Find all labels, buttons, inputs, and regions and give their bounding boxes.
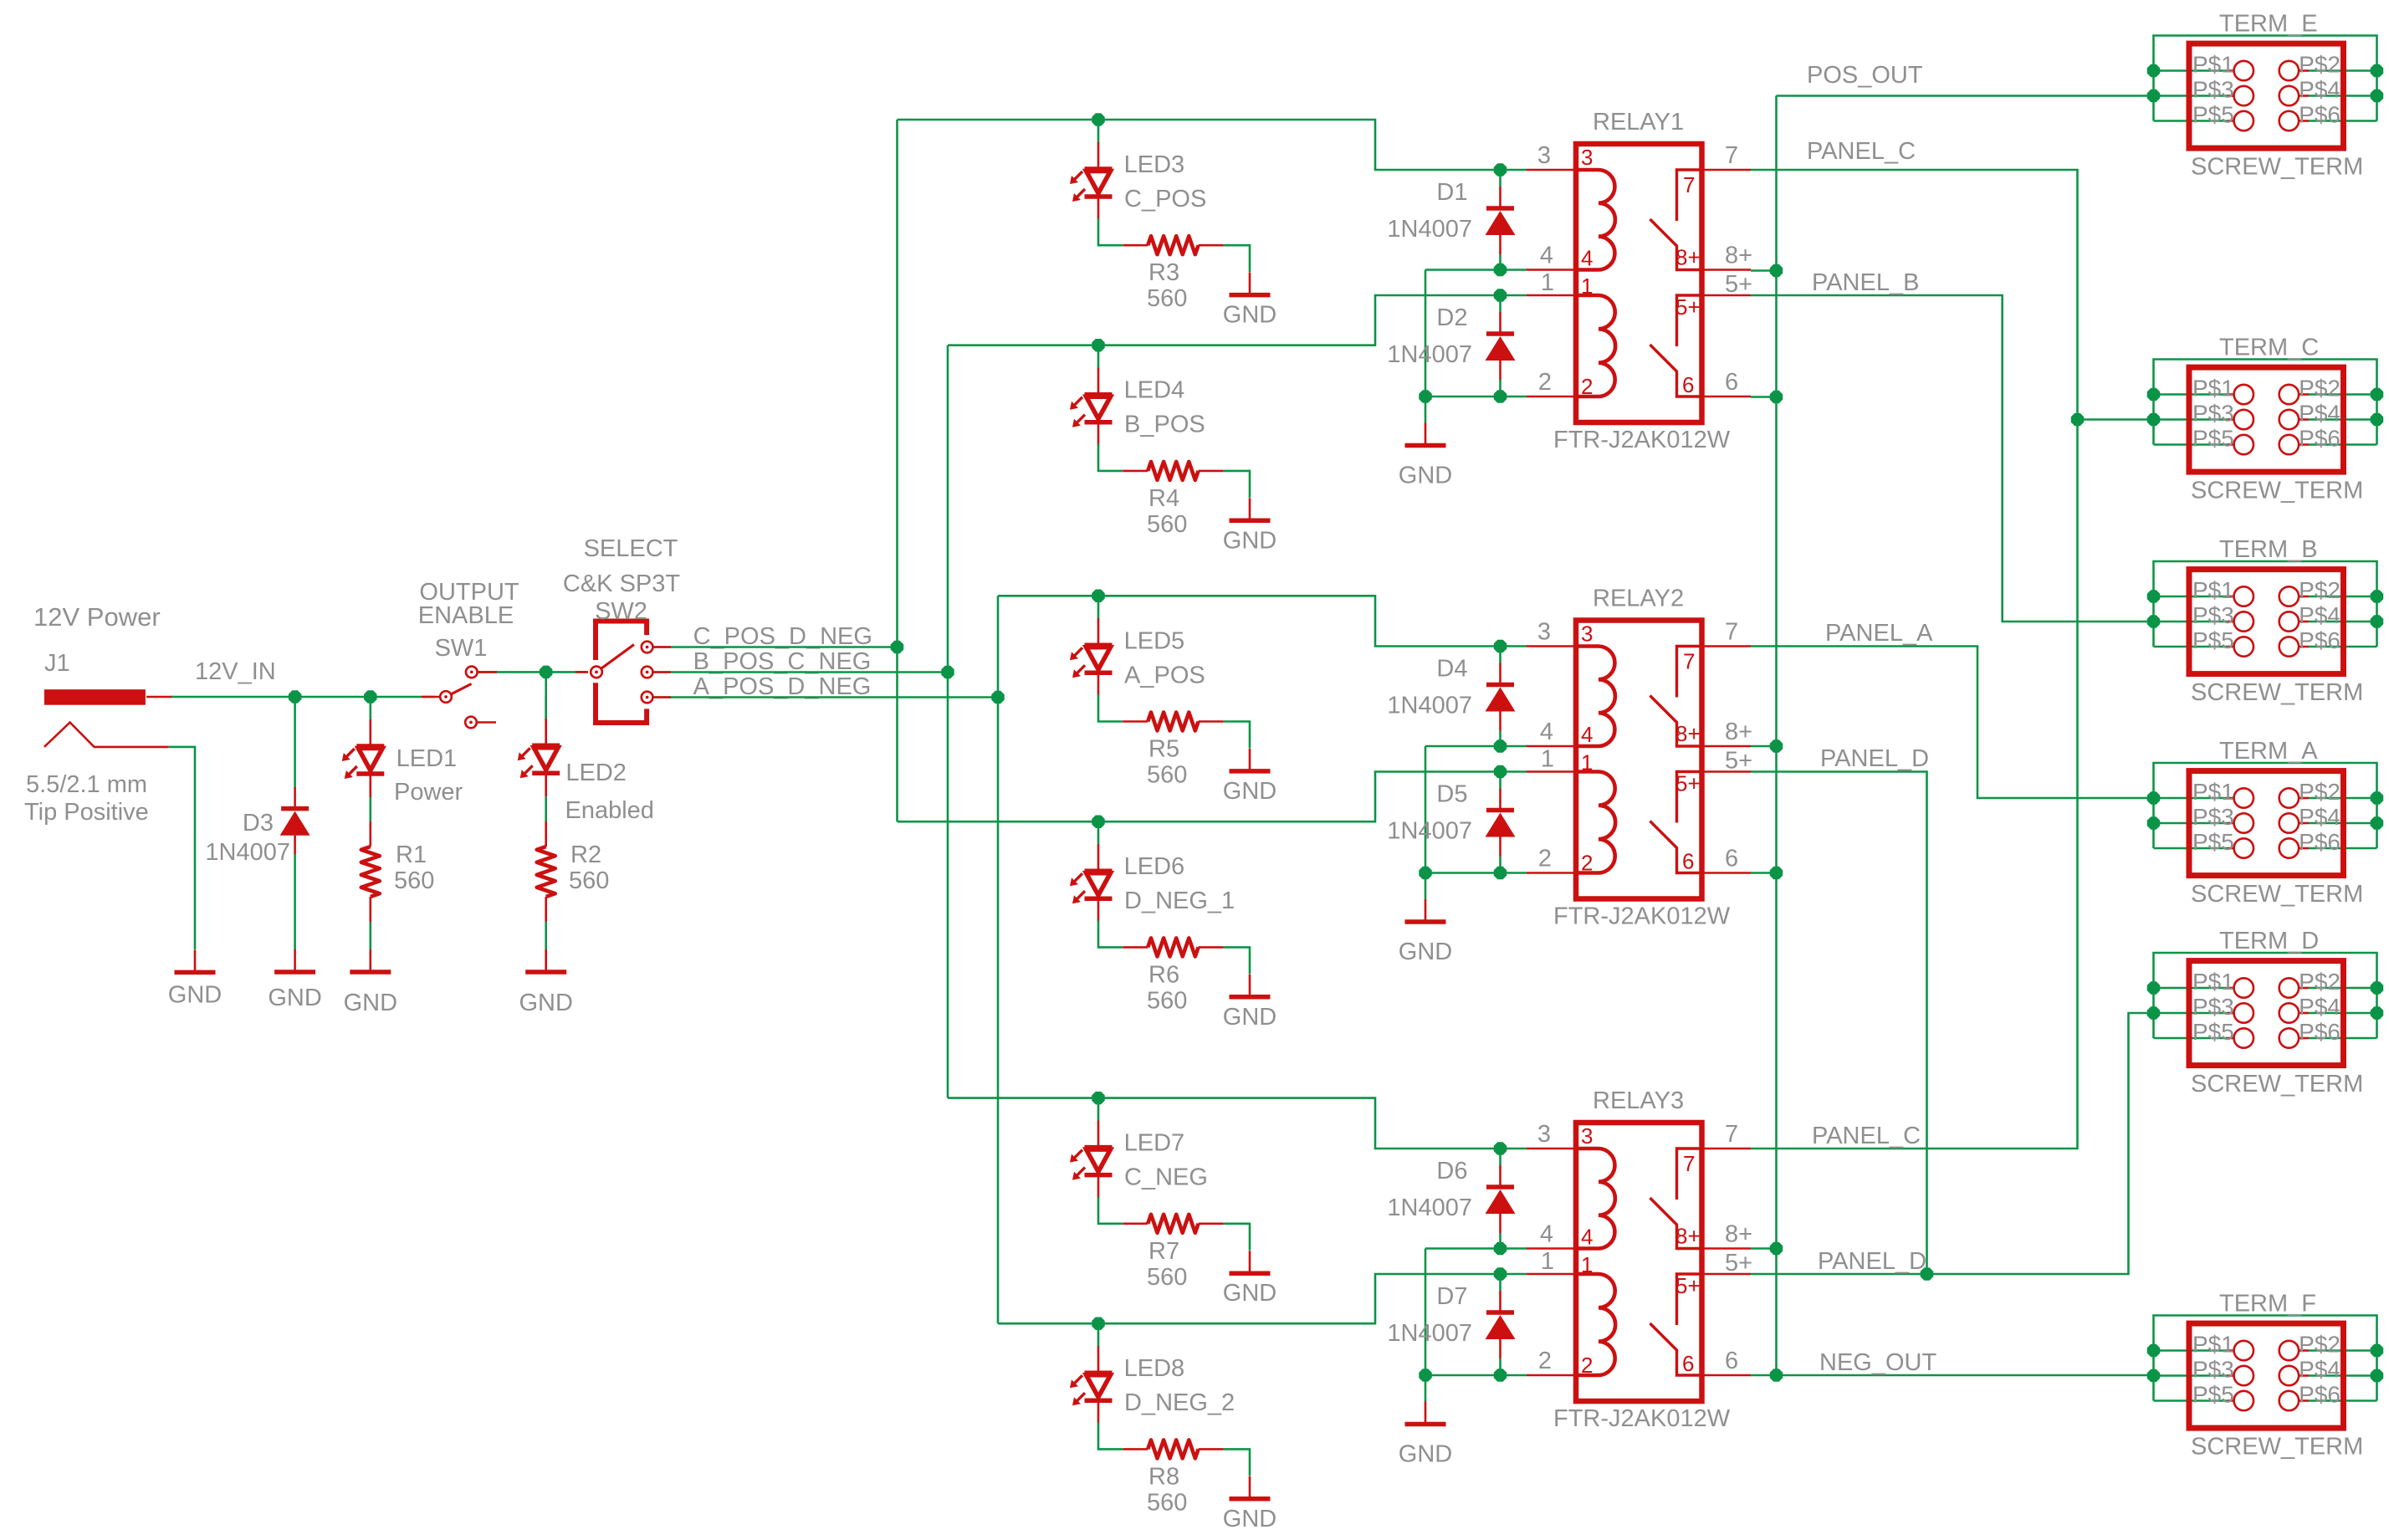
junction LED tap	[1092, 590, 1104, 601]
svg-text:SW2: SW2	[595, 598, 647, 625]
wire LED5 cathode to R5	[1098, 694, 1123, 721]
svg-text:6: 6	[1682, 849, 1694, 874]
junction RELAY3 8+ on bus	[1771, 1243, 1783, 1255]
svg-text:P$3: P$3	[2192, 602, 2234, 628]
wire LED7 cathode to R7	[1098, 1197, 1123, 1224]
junction D7 anode at pin2	[1495, 1369, 1507, 1381]
ground GND (R3)	[1230, 273, 1271, 295]
junction LED tap	[1092, 1317, 1104, 1329]
ground GND (R7)	[1230, 1251, 1271, 1273]
wire POS_OUT	[1777, 95, 2154, 97]
svg-text:P$6: P$6	[2299, 829, 2340, 855]
svg-text:P$2: P$2	[2299, 779, 2340, 805]
svg-text:1: 1	[1541, 746, 1554, 773]
svg-text:7: 7	[1683, 172, 1695, 197]
svg-text:P$1: P$1	[2192, 52, 2234, 78]
svg-text:GND: GND	[519, 990, 572, 1016]
wire LED6 cathode to R6	[1098, 920, 1123, 947]
wire RELAY2 pin5+ PANEL_D	[1751, 772, 1927, 1275]
svg-text:1: 1	[1541, 269, 1554, 296]
svg-text:TERM_D: TERM_D	[2219, 928, 2319, 954]
svg-text:2: 2	[1538, 369, 1552, 396]
junction 12V_IN at D3	[289, 691, 301, 703]
svg-text:5+: 5+	[1675, 1273, 1701, 1298]
svg-text:560: 560	[569, 867, 609, 894]
junction LED tap	[1092, 816, 1104, 827]
svg-text:P$5: P$5	[2192, 426, 2234, 452]
LED LED7 C_NEG	[1070, 1098, 1113, 1199]
svg-text:2: 2	[1538, 1348, 1552, 1374]
svg-text:P$2: P$2	[2299, 1332, 2340, 1358]
svg-text:Power: Power	[394, 779, 463, 806]
wire R7 to GND	[1224, 1224, 1250, 1251]
svg-text:P$4: P$4	[2299, 1357, 2340, 1383]
svg-text:3: 3	[1537, 1121, 1551, 1148]
junction PANEL_D at relay3 5+	[1921, 1268, 1933, 1280]
resistor R8 560	[1123, 1440, 1223, 1458]
svg-text:SW1: SW1	[435, 635, 488, 662]
svg-text:6: 6	[1682, 1351, 1694, 1376]
ground GND (RELAY1)	[1405, 423, 1446, 446]
svg-text:1: 1	[1581, 274, 1593, 299]
wire RELAY1 GND drop	[1425, 397, 1427, 423]
diode D2 1N4007	[1486, 295, 1516, 397]
junction D2 anode at pin2	[1495, 391, 1507, 402]
wire R4 to GND	[1224, 471, 1250, 498]
junction C bus	[892, 642, 903, 653]
wire C_POS_D_NEG	[653, 646, 898, 648]
svg-text:2: 2	[1581, 1353, 1593, 1378]
wire R5 to GND	[1224, 722, 1250, 749]
svg-text:1N4007: 1N4007	[1387, 216, 1472, 243]
wire RELAY3 pin2 row	[1425, 1374, 1527, 1377]
wire R2 to GND	[545, 922, 547, 949]
svg-text:P$2: P$2	[2299, 969, 2340, 995]
svg-text:NEG_OUT: NEG_OUT	[1819, 1349, 1936, 1376]
wire R8 to GND	[1224, 1449, 1250, 1476]
junction diode tap	[1495, 1268, 1507, 1280]
svg-text:LED7: LED7	[1124, 1130, 1185, 1157]
svg-text:1N4007: 1N4007	[1387, 1195, 1472, 1221]
svg-text:2: 2	[1581, 374, 1593, 399]
ground GND (R8)	[1230, 1476, 1271, 1499]
junction PANEL_C TERM_C tap	[2072, 414, 2084, 426]
junction RELAY3 GND	[1420, 1369, 1431, 1381]
svg-text:560: 560	[1147, 285, 1187, 312]
svg-text:P$1: P$1	[2192, 1332, 2234, 1358]
resistor R3 560	[1123, 236, 1223, 254]
svg-text:FTR-J2AK012W: FTR-J2AK012W	[1553, 427, 1731, 453]
svg-text:D_NEG_1: D_NEG_1	[1124, 888, 1235, 914]
svg-text:LED5: LED5	[1124, 627, 1185, 654]
svg-text:P$3: P$3	[2192, 401, 2234, 427]
screw terminal TERM_C	[2154, 360, 2377, 445]
svg-text:6: 6	[1682, 372, 1694, 397]
svg-text:P$6: P$6	[2299, 102, 2340, 128]
svg-text:P$5: P$5	[2192, 1382, 2234, 1408]
wire RELAY1 pin6 stub	[1751, 396, 1777, 398]
wire RELAY3 pin5+ to TERM_D	[1751, 1013, 2154, 1274]
svg-text:1: 1	[1541, 1248, 1554, 1275]
svg-text:7: 7	[1725, 1121, 1738, 1148]
ground GND (R2)	[525, 949, 566, 972]
svg-text:R8: R8	[1148, 1463, 1179, 1490]
svg-text:GND: GND	[1223, 302, 1276, 329]
svg-text:P$3: P$3	[2192, 1357, 2234, 1383]
svg-text:SCREW_TERM: SCREW_TERM	[2191, 1071, 2363, 1097]
wire RELAY3 pin8+ stub	[1751, 1247, 1777, 1250]
svg-text:C_POS: C_POS	[1124, 186, 1206, 212]
wire LED4 cathode to R4	[1098, 444, 1123, 471]
junction D6 anode at pin4	[1495, 1243, 1507, 1255]
svg-text:P$2: P$2	[2299, 577, 2340, 603]
junction diode tap	[1495, 1143, 1507, 1154]
svg-text:R5: R5	[1148, 736, 1179, 763]
screw terminal TERM_D	[2154, 953, 2377, 1038]
svg-text:3: 3	[1537, 142, 1551, 169]
svg-text:GND: GND	[1223, 527, 1276, 554]
svg-text:TERM_E: TERM_E	[2219, 11, 2318, 38]
screw terminal TERM_A	[2154, 763, 2377, 848]
wire RELAY2 pin2 row	[1425, 872, 1527, 874]
svg-text:P$2: P$2	[2299, 376, 2340, 402]
wire D_NEG_1 feed to RELAY2 pin1	[898, 772, 1527, 822]
svg-text:R1: R1	[396, 842, 427, 868]
vertical bus A_POS_D_NEG	[997, 596, 1000, 1323]
svg-text:PANEL_D: PANEL_D	[1818, 1248, 1926, 1275]
wire B_POS feed to RELAY1 pin1	[948, 295, 1527, 345]
wire RELAY3 pin6 NEG_OUT	[1751, 1374, 2154, 1377]
svg-text:R4: R4	[1148, 485, 1179, 512]
svg-text:8+: 8+	[1675, 1224, 1701, 1249]
svg-text:POS_OUT: POS_OUT	[1807, 62, 1923, 89]
svg-text:GND: GND	[1399, 939, 1452, 965]
ground GND (R5)	[1230, 749, 1271, 771]
resistor R6 560	[1123, 938, 1223, 956]
junction RELAY2 6 on bus	[1771, 867, 1783, 879]
svg-text:7: 7	[1683, 1151, 1695, 1176]
wire RELAY2 pin7 PANEL_A	[1751, 647, 2154, 799]
svg-text:PANEL_A: PANEL_A	[1825, 620, 1933, 647]
svg-text:P$5: P$5	[2192, 1019, 2234, 1045]
svg-text:RELAY1: RELAY1	[1593, 109, 1684, 136]
svg-text:5+: 5+	[1725, 748, 1752, 775]
junction diode tap	[1495, 641, 1507, 652]
vertical bus POS_OUT/NEG_OUT	[1775, 96, 1778, 1376]
wire RELAY2 pin8+ stub	[1751, 745, 1777, 748]
resistor R5 560	[1123, 713, 1223, 731]
svg-text:SCREW_TERM: SCREW_TERM	[2191, 154, 2363, 181]
svg-text:D4: D4	[1436, 656, 1467, 683]
svg-text:1N4007: 1N4007	[1387, 1320, 1472, 1347]
LED LED2 Enabled	[518, 696, 560, 796]
svg-text:8+: 8+	[1675, 245, 1701, 270]
svg-text:B_POS: B_POS	[1124, 412, 1205, 438]
svg-text:P$6: P$6	[2299, 426, 2340, 452]
svg-text:P$5: P$5	[2192, 102, 2234, 128]
svg-text:ENABLE: ENABLE	[418, 602, 514, 629]
junction D1 anode at pin4	[1495, 264, 1507, 276]
junction diode tap	[1495, 766, 1507, 778]
svg-text:4: 4	[1540, 719, 1553, 745]
svg-text:5.5/2.1 mm: 5.5/2.1 mm	[26, 771, 147, 798]
svg-text:GND: GND	[1223, 778, 1276, 805]
relay RELAY1 FTR-J2AK012W	[1527, 144, 1751, 422]
junction D5 anode at pin2	[1495, 867, 1507, 879]
svg-text:12V Power: 12V Power	[33, 602, 161, 632]
ground GND (R4)	[1230, 498, 1271, 520]
svg-text:LED8: LED8	[1124, 1355, 1185, 1382]
wire RELAY1 pin2 row	[1425, 396, 1527, 398]
svg-text:D5: D5	[1436, 781, 1467, 808]
junction at LED2 tap	[540, 666, 552, 678]
svg-text:8+: 8+	[1675, 721, 1701, 746]
svg-text:7: 7	[1683, 649, 1695, 674]
svg-text:4: 4	[1581, 1225, 1593, 1250]
wire LED3 cathode to R3	[1098, 218, 1123, 245]
diode D3 1N4007	[280, 787, 310, 854]
svg-text:PANEL_C: PANEL_C	[1807, 138, 1916, 165]
wire D3 drop	[294, 697, 296, 787]
svg-text:RELAY3: RELAY3	[1593, 1087, 1684, 1114]
svg-text:P$4: P$4	[2299, 804, 2340, 830]
svg-text:TERM_B: TERM_B	[2219, 536, 2318, 563]
svg-text:3: 3	[1581, 1123, 1593, 1149]
svg-text:GND: GND	[1223, 1506, 1276, 1532]
wire D_NEG_2 feed to RELAY3 pin1	[998, 1274, 1527, 1323]
wire RELAY3 GND drop	[1425, 1375, 1427, 1402]
diode D6 1N4007	[1486, 1149, 1516, 1249]
wire LED1 to R1	[369, 797, 371, 821]
svg-text:5+: 5+	[1675, 294, 1701, 320]
junction RELAY1 8+ on POS bus	[1771, 265, 1783, 277]
svg-text:7: 7	[1725, 619, 1738, 646]
svg-text:P$4: P$4	[2299, 994, 2340, 1020]
svg-text:D_NEG_2: D_NEG_2	[1124, 1389, 1235, 1416]
svg-text:2: 2	[1538, 846, 1552, 872]
svg-text:D1: D1	[1436, 179, 1467, 206]
svg-text:LED1: LED1	[396, 745, 458, 772]
svg-text:8+: 8+	[1725, 1221, 1752, 1248]
wire R6 to GND	[1224, 947, 1250, 974]
resistor R1 560	[361, 821, 380, 922]
wire PANEL_C to TERM_C	[2078, 418, 2154, 421]
svg-text:P$1: P$1	[2192, 779, 2234, 805]
svg-text:2: 2	[1581, 851, 1593, 876]
svg-text:12V_IN: 12V_IN	[195, 658, 276, 685]
svg-text:3: 3	[1581, 145, 1593, 170]
junction NEG_OUT	[1771, 1369, 1783, 1381]
svg-text:GND: GND	[1399, 1441, 1452, 1468]
svg-text:R6: R6	[1148, 961, 1179, 988]
svg-text:GND: GND	[1223, 1004, 1276, 1031]
wire C_NEG feed to RELAY3 pin3	[948, 1098, 1527, 1149]
svg-text:P$6: P$6	[2299, 1382, 2340, 1408]
svg-text:4: 4	[1540, 1221, 1553, 1248]
svg-text:1: 1	[1581, 750, 1593, 775]
LED LED8 D_NEG_2	[1070, 1323, 1113, 1424]
svg-text:P$5: P$5	[2192, 627, 2234, 653]
wire B_POS_C_NEG	[653, 671, 948, 673]
wire RELAY2 pin4-pin2 vertical	[1425, 746, 1427, 873]
wire LED8 cathode to R8	[1098, 1422, 1123, 1449]
junction diode tap	[1495, 289, 1507, 301]
svg-text:GND: GND	[1223, 1280, 1276, 1307]
svg-text:P$3: P$3	[2192, 804, 2234, 830]
resistor R4 560	[1123, 462, 1223, 480]
svg-text:SCREW_TERM: SCREW_TERM	[2191, 478, 2363, 504]
svg-text:Enabled: Enabled	[565, 797, 654, 824]
svg-text:7: 7	[1725, 142, 1738, 169]
svg-text:PANEL_D: PANEL_D	[1820, 745, 1929, 772]
svg-text:SCREW_TERM: SCREW_TERM	[2191, 679, 2363, 706]
resistor R2 560	[537, 821, 555, 922]
svg-text:6: 6	[1725, 1348, 1738, 1374]
svg-text:LED6: LED6	[1124, 853, 1185, 880]
diode D5 1N4007	[1486, 772, 1516, 873]
svg-text:GND: GND	[168, 981, 222, 1008]
svg-text:GND: GND	[1399, 463, 1452, 489]
svg-text:560: 560	[1147, 762, 1187, 789]
wire RELAY3 pin4-pin2 vertical	[1425, 1249, 1427, 1376]
junction RELAY2 GND	[1420, 867, 1431, 879]
svg-text:3: 3	[1581, 622, 1593, 647]
wire RELAY1 pin7 PANEL_C	[1751, 170, 2078, 1149]
svg-text:SCREW_TERM: SCREW_TERM	[2191, 881, 2363, 908]
svg-text:FTR-J2AK012W: FTR-J2AK012W	[1553, 903, 1731, 930]
svg-text:P$3: P$3	[2192, 994, 2234, 1020]
wire RELAY1 pin5+ PANEL_B	[1751, 295, 2154, 622]
svg-text:6: 6	[1725, 369, 1738, 396]
vertical bus C_POS_D_NEG	[896, 120, 898, 821]
wire SW1 to SW2 common	[478, 671, 588, 673]
svg-text:P$4: P$4	[2299, 77, 2340, 103]
diode D1 1N4007	[1486, 170, 1516, 270]
vertical bus B_POS_C_NEG	[947, 345, 949, 1098]
svg-text:C&K SP3T: C&K SP3T	[563, 570, 680, 597]
diode D7 1N4007	[1486, 1274, 1516, 1375]
svg-text:560: 560	[1147, 1489, 1187, 1516]
wire RELAY2 pin6 stub	[1751, 872, 1777, 874]
LED LED5 A_POS	[1070, 596, 1113, 696]
junction D4 anode at pin4	[1495, 740, 1507, 752]
connector J1 12V power jack	[44, 689, 173, 747]
ground GND (RELAY3)	[1405, 1402, 1446, 1425]
svg-text:D2: D2	[1436, 304, 1467, 331]
svg-text:560: 560	[1147, 987, 1187, 1014]
svg-text:TERM_F: TERM_F	[2219, 1291, 2316, 1317]
svg-text:5+: 5+	[1725, 1250, 1752, 1277]
junction LED tap	[1092, 1092, 1104, 1104]
wire A_POS_D_NEG	[653, 696, 998, 698]
svg-text:P$6: P$6	[2299, 1019, 2340, 1045]
wire LED2 to R2	[545, 796, 547, 821]
svg-text:P$1: P$1	[2192, 969, 2234, 995]
svg-text:P$4: P$4	[2299, 401, 2340, 427]
svg-text:4: 4	[1540, 243, 1553, 269]
svg-text:GND: GND	[268, 985, 321, 1011]
svg-text:LED4: LED4	[1124, 377, 1185, 404]
junction LED tap	[1092, 114, 1104, 125]
wire LED2 drop	[545, 672, 547, 720]
svg-text:C_NEG: C_NEG	[1124, 1164, 1208, 1191]
svg-text:3: 3	[1537, 619, 1551, 646]
svg-text:TERM_A: TERM_A	[2219, 738, 2318, 765]
svg-text:LED3: LED3	[1124, 151, 1185, 178]
LED LED1 Power	[342, 697, 385, 797]
svg-text:8+: 8+	[1725, 243, 1752, 269]
svg-text:TERM_C: TERM_C	[2219, 335, 2319, 361]
svg-text:4: 4	[1581, 246, 1593, 271]
relay RELAY2 FTR-J2AK012W	[1527, 621, 1751, 899]
svg-text:J1: J1	[44, 650, 70, 677]
svg-text:SCREW_TERM: SCREW_TERM	[2191, 1434, 2363, 1461]
svg-text:8+: 8+	[1725, 719, 1752, 745]
svg-text:LED2: LED2	[565, 760, 627, 786]
svg-text:P$6: P$6	[2299, 627, 2340, 653]
wire R1 to GND	[369, 922, 371, 949]
LED LED4 B_POS	[1070, 345, 1113, 446]
wire RELAY2 pin4 row to GND corner	[1425, 745, 1527, 748]
wire R3 to GND	[1224, 245, 1250, 272]
svg-text:1N4007: 1N4007	[1387, 341, 1472, 368]
wire RELAY1 pin8+ stub	[1751, 269, 1777, 272]
ground GND (J1)	[175, 949, 216, 972]
svg-text:P$5: P$5	[2192, 829, 2234, 855]
svg-text:A_POS: A_POS	[1124, 662, 1205, 688]
svg-text:560: 560	[394, 867, 434, 894]
wire A_POS feed to RELAY2 pin3	[998, 596, 1527, 646]
svg-text:P$1: P$1	[2192, 577, 2234, 603]
svg-text:D3: D3	[243, 810, 274, 837]
svg-text:560: 560	[1147, 1264, 1187, 1291]
LED LED6 D_NEG_1	[1070, 821, 1113, 922]
switch SW1 OUTPUT ENABLE	[422, 696, 440, 698]
svg-text:RELAY2: RELAY2	[1593, 586, 1684, 612]
wire J1 sleeve to GND	[169, 747, 195, 949]
svg-text:5+: 5+	[1675, 771, 1701, 796]
junction RELAY2 8+ on bus	[1771, 740, 1783, 752]
svg-text:P$1: P$1	[2192, 376, 2234, 402]
junction A bus	[992, 692, 1004, 703]
svg-text:P$2: P$2	[2299, 52, 2340, 78]
junction 12V_IN at LED1	[365, 691, 376, 703]
ground GND (R1)	[350, 949, 391, 972]
wire RELAY1 pin4-pin2 vertical	[1425, 270, 1427, 397]
svg-text:D6: D6	[1436, 1158, 1467, 1184]
LED LED3 C_POS	[1070, 120, 1113, 220]
svg-text:PANEL_B: PANEL_B	[1812, 269, 1919, 296]
screw terminal TERM_F	[2154, 1316, 2377, 1401]
svg-text:GND: GND	[344, 990, 397, 1016]
wire 12V_IN main	[171, 696, 435, 698]
ground GND (R6)	[1230, 975, 1271, 997]
svg-text:1N4007: 1N4007	[1387, 818, 1472, 845]
junction RELAY1 6 on POS bus	[1771, 391, 1783, 403]
svg-text:SELECT: SELECT	[584, 535, 678, 562]
svg-text:P$4: P$4	[2299, 602, 2340, 628]
svg-text:R3: R3	[1148, 259, 1179, 286]
relay RELAY3 FTR-J2AK012W	[1527, 1123, 1751, 1401]
diode D4 1N4007	[1486, 647, 1516, 747]
junction diode tap	[1495, 164, 1507, 176]
svg-text:6: 6	[1725, 846, 1738, 872]
svg-text:D7: D7	[1436, 1283, 1467, 1310]
svg-text:1N4007: 1N4007	[1387, 693, 1472, 719]
screw terminal TERM_B	[2154, 561, 2377, 647]
resistor R7 560	[1123, 1215, 1223, 1233]
svg-text:1N4007: 1N4007	[205, 839, 290, 866]
